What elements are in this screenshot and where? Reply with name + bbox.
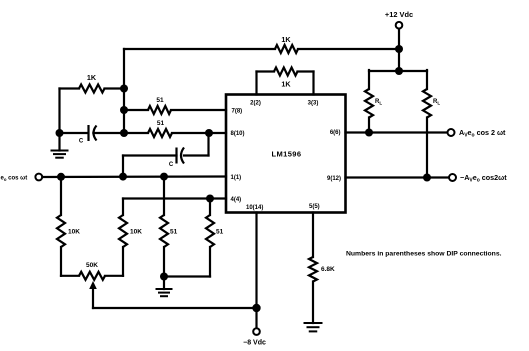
svg-text:1K: 1K [87, 73, 97, 82]
wire top rail left segment [124, 48, 275, 50]
wire pin10 to -8V [255, 213, 257, 309]
pin label 7(8) [232, 109, 243, 115]
svg-text:51: 51 [216, 229, 224, 236]
svg-text:6.8K: 6.8K [321, 266, 335, 273]
wire wiper to -8V node [93, 307, 257, 309]
svg-text:51: 51 [156, 97, 164, 104]
input terminal e cos wt [1, 174, 43, 182]
svg-text:7(8): 7(8) [232, 109, 243, 115]
node pin8 row bus junction [120, 129, 128, 137]
svg-text:50K: 50K [86, 262, 98, 269]
op-amp IC LM1596 [226, 95, 346, 213]
ground below C1 [52, 133, 68, 158]
resistor 1K top rail [275, 35, 298, 53]
resistor 51 third [160, 177, 178, 277]
resistor 1K pins 2-3 [257, 68, 314, 95]
node RL rail junction [395, 67, 403, 75]
pin label 6(6) [330, 130, 341, 136]
potentiometer 50K [61, 262, 123, 280]
pin label 8(10) [231, 131, 245, 137]
node cap C1 left junction [56, 129, 64, 137]
wire main left vertical bus [123, 49, 125, 133]
wire RL top rail [369, 70, 427, 72]
svg-text:C: C [79, 139, 84, 145]
+12 Vdc supply terminal [385, 10, 413, 49]
pin label 3(3) [308, 101, 319, 107]
svg-text:1K: 1K [281, 80, 291, 89]
node 51-3 top junction [160, 173, 168, 181]
pin label 5(5) [309, 204, 320, 210]
svg-text:10K: 10K [68, 229, 80, 236]
node pin7 row bus junction [120, 106, 128, 114]
svg-text:2(2): 2(2) [250, 101, 261, 107]
pin label 9(12) [327, 176, 341, 182]
node RL left bottom [365, 129, 373, 137]
svg-text:6(6): 6(6) [330, 130, 341, 136]
wire pin1 input row [42, 175, 226, 178]
node 10K-1 top [57, 173, 65, 181]
svg-text:8(10): 8(10) [231, 131, 245, 137]
node 51-4 top junction [206, 195, 214, 203]
pin label 2(2) [250, 101, 261, 107]
svg-text:3(3): 3(3) [308, 101, 319, 107]
resistor 10K second [119, 215, 142, 276]
svg-text:RL: RL [433, 99, 440, 106]
svg-text:LM1596: LM1596 [272, 150, 302, 159]
wire pin4 row [123, 199, 226, 216]
svg-text:1K: 1K [281, 35, 291, 44]
wire top rail right segment [298, 48, 399, 50]
resistor 10K first [57, 177, 80, 276]
ground below 51 resistors [157, 277, 172, 297]
pin label 1(1) [231, 175, 242, 181]
svg-text:9(12): 9(12) [327, 176, 341, 182]
wire pin6 output row [346, 131, 448, 133]
output terminal -Av eo cos 2wt [449, 173, 507, 184]
note DIP connections [346, 251, 502, 258]
resistor 6.8K pin5 [309, 213, 335, 324]
node cap C2 top junction [205, 129, 226, 137]
svg-text:−8 Vdc: −8 Vdc [243, 340, 266, 347]
node 1K feedback right [120, 85, 128, 93]
svg-text:4(4): 4(4) [231, 197, 242, 203]
-8 Vdc terminal [243, 308, 266, 347]
wire 1K feedback left corner vertical [58, 89, 60, 134]
capacitor C2 [123, 133, 209, 177]
svg-text:eo cos ωt: eo cos ωt [1, 176, 28, 183]
svg-text:51: 51 [157, 120, 165, 127]
resistor 51 pin7 [124, 97, 226, 114]
svg-text:10K: 10K [130, 229, 142, 236]
svg-text:Numbers in parentheses show DI: Numbers in parentheses show DIP connecti… [346, 251, 502, 258]
pot wiper arrow [89, 281, 97, 308]
resistor 51 fourth [206, 199, 224, 277]
pin label 4(4) [231, 197, 242, 203]
svg-text:51: 51 [170, 229, 178, 236]
node RL right bottom [423, 174, 431, 182]
svg-text:1(1): 1(1) [231, 175, 242, 181]
svg-text:10(14): 10(14) [246, 205, 263, 211]
output terminal Av eo cos 2wt [448, 128, 507, 139]
pin label 10(14) [246, 205, 263, 211]
svg-text:+12 Vdc: +12 Vdc [385, 10, 413, 19]
resistor 51 pin8 [124, 120, 209, 137]
svg-text:5(5): 5(5) [309, 204, 320, 210]
wire +12V to RL rail [398, 49, 400, 71]
resistor RL left [365, 70, 382, 133]
node -8V junction [252, 304, 260, 312]
resistor RL right [423, 70, 440, 178]
svg-text:C: C [169, 162, 174, 168]
resistor 1K feedback [60, 73, 125, 93]
svg-text:RL: RL [375, 99, 382, 106]
node C2 bottom junction [119, 173, 127, 181]
node top rail / +12V junction [395, 45, 403, 53]
node 51 bottoms junction [160, 273, 168, 281]
capacitor C1 [63, 125, 124, 145]
wire pin9 output row [346, 176, 450, 178]
wire 51 bottoms tie [164, 275, 210, 277]
ground below 6.8K [305, 323, 322, 331]
